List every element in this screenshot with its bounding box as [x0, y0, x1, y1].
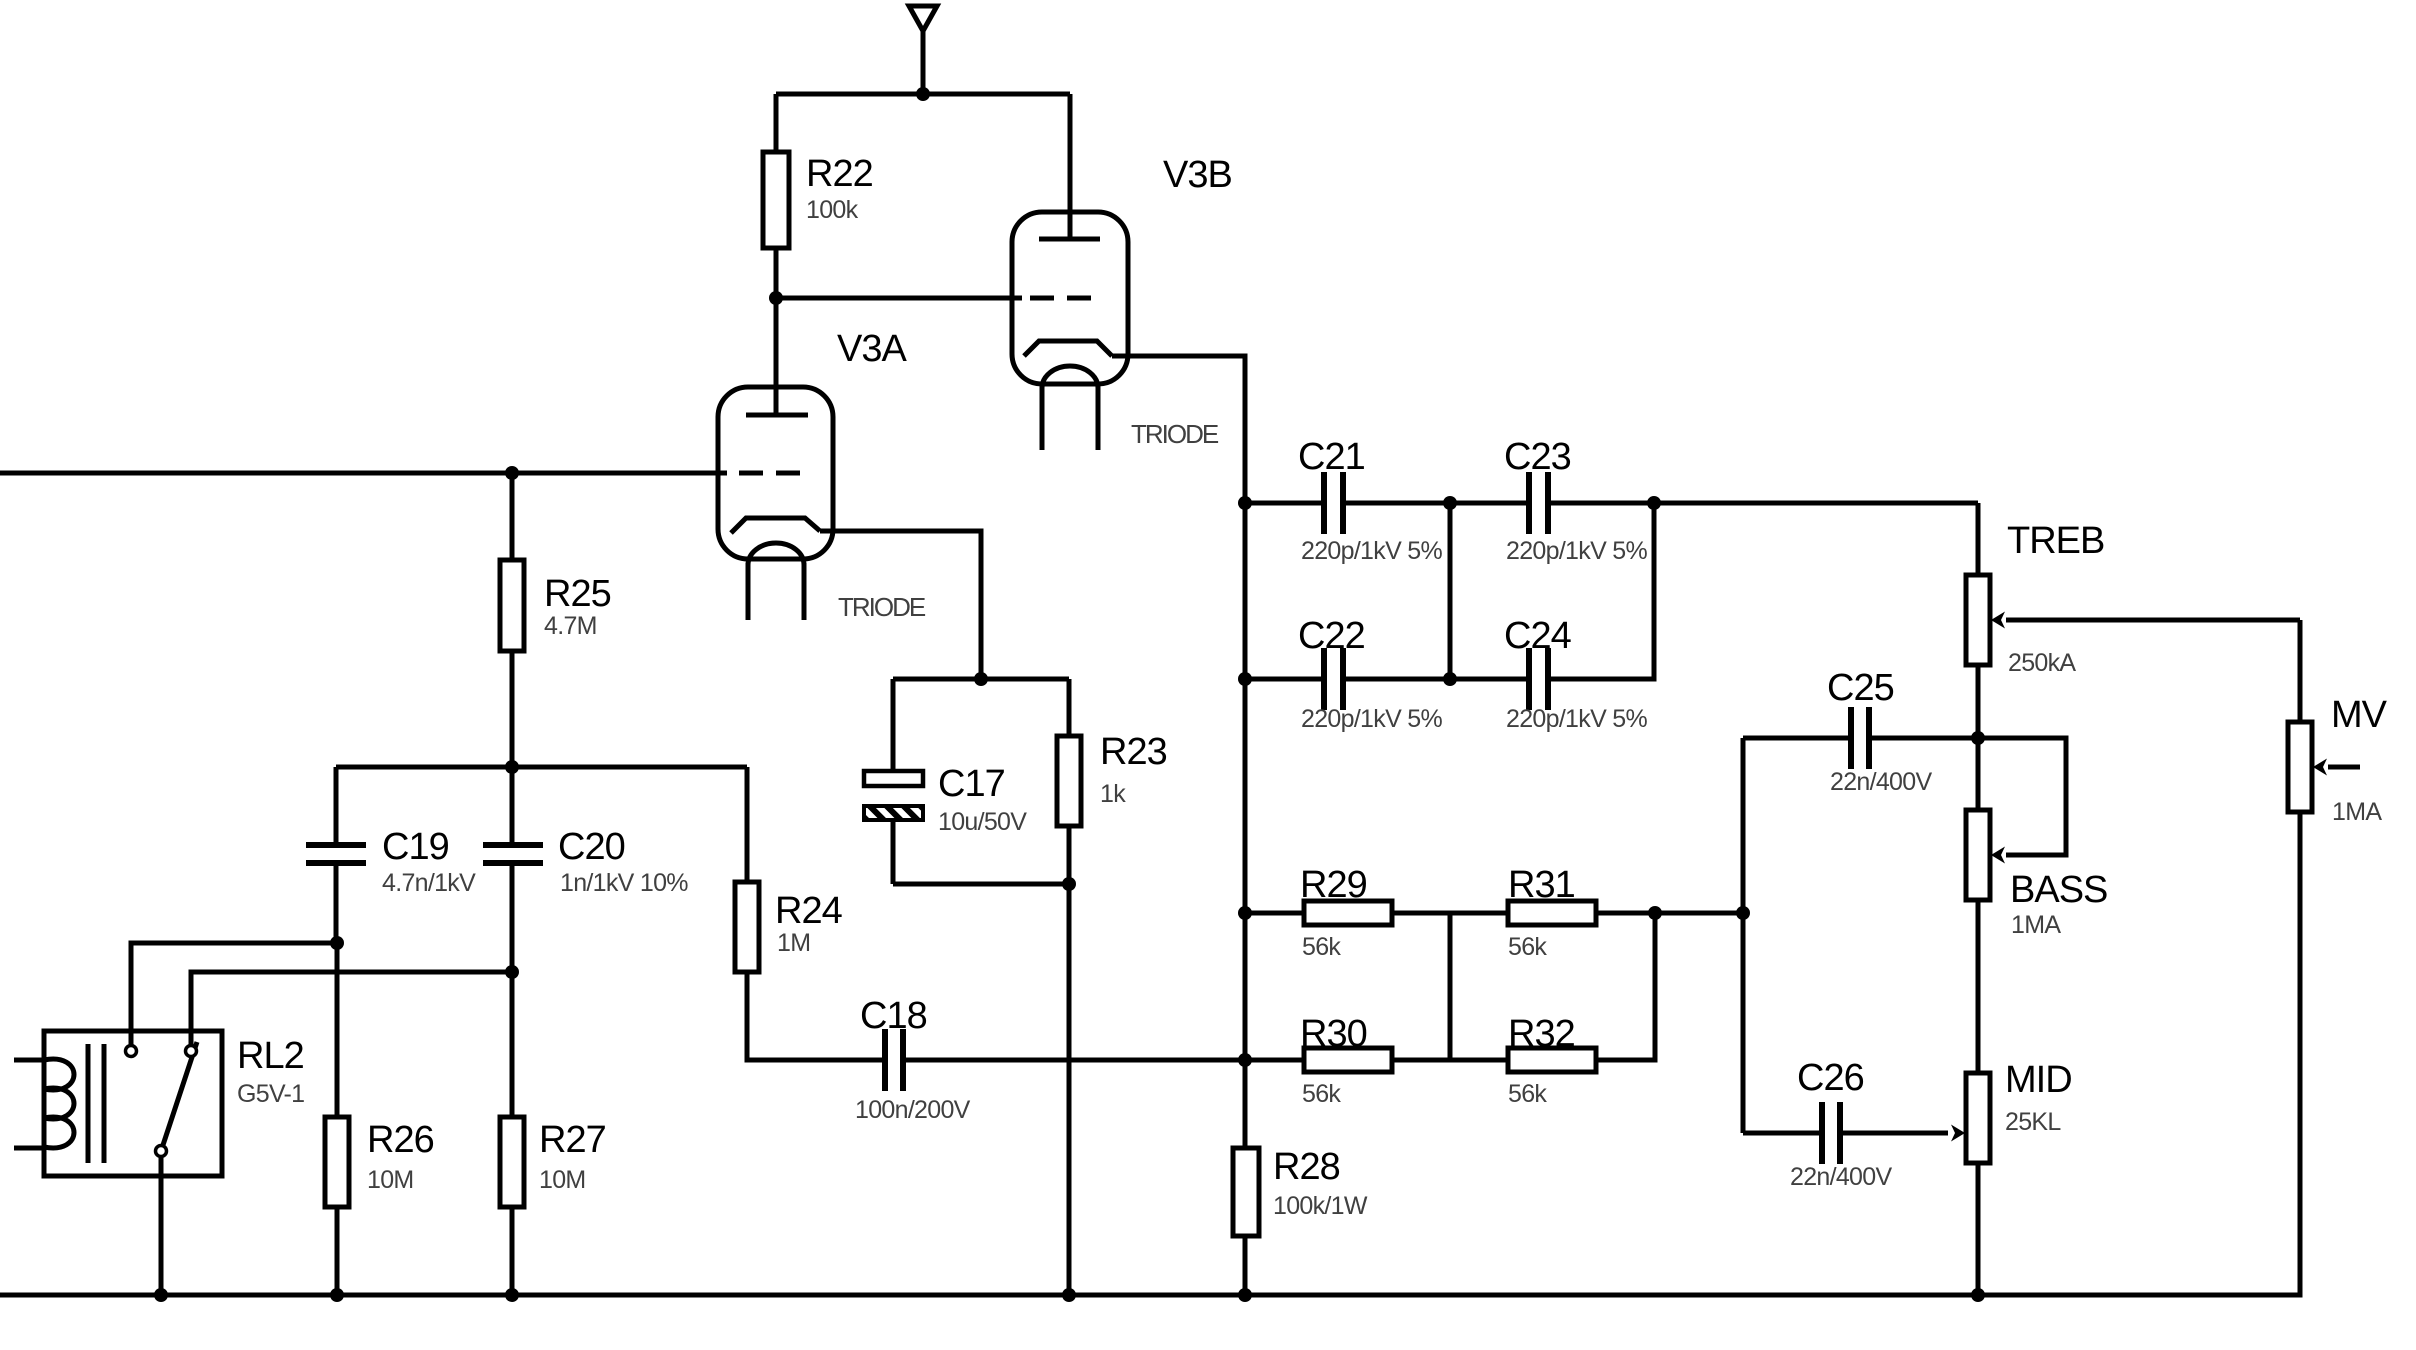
junction bus R30 — [1238, 1053, 1252, 1067]
svg-text:R28: R28 — [1273, 1146, 1340, 1188]
svg-text:1MA: 1MA — [2332, 798, 2382, 826]
svg-text:10M: 10M — [367, 1166, 414, 1194]
svg-text:C20: C20 — [558, 826, 625, 868]
svg-text:220p/1kV 5%: 220p/1kV 5% — [1506, 537, 1647, 565]
svg-text:1n/1kV 10%: 1n/1kV 10% — [560, 869, 688, 897]
wire main bus — [1243, 503, 1248, 1148]
capacitor C24 — [1450, 503, 1654, 733]
junction R25 bottom — [505, 760, 519, 774]
resistor R24 — [735, 767, 883, 1060]
resistor R30 — [1245, 1013, 1508, 1108]
svg-text:10u/50V: 10u/50V — [938, 808, 1027, 836]
capacitor C17 — [864, 679, 1069, 884]
svg-text:100k/1W: 100k/1W — [1273, 1192, 1368, 1220]
svg-text:10M: 10M — [539, 1166, 586, 1194]
junction rail MID — [1971, 1288, 1985, 1302]
wire relay pin2 to C20 branch — [191, 972, 512, 1045]
svg-text:TRIODE: TRIODE — [1131, 419, 1219, 449]
svg-text:R31: R31 — [1508, 864, 1575, 906]
wire R ladder middle — [1448, 913, 1453, 1060]
svg-text:100n/200V: 100n/200V — [855, 1096, 971, 1124]
junction bus R29 — [1238, 906, 1252, 920]
svg-text:C24: C24 — [1504, 615, 1572, 657]
junction C20 bottom — [505, 965, 519, 979]
svg-text:100k: 100k — [806, 196, 859, 224]
svg-text:C18: C18 — [860, 995, 927, 1037]
svg-text:R29: R29 — [1300, 864, 1367, 906]
svg-text:C23: C23 — [1504, 436, 1571, 478]
svg-text:R30: R30 — [1300, 1013, 1367, 1055]
svg-text:R23: R23 — [1100, 731, 1167, 773]
svg-text:25KL: 25KL — [2005, 1108, 2061, 1136]
svg-text:1M: 1M — [777, 929, 810, 957]
resistor R25 — [500, 473, 611, 767]
junction bus C22 — [1238, 672, 1252, 686]
junction supply node — [916, 87, 930, 101]
svg-text:56k: 56k — [1302, 933, 1341, 961]
svg-text:R25: R25 — [544, 573, 611, 615]
svg-text:56k: 56k — [1302, 1080, 1341, 1108]
wire relay pin1 to C19 branch — [131, 943, 337, 1045]
svg-text:220p/1kV 5%: 220p/1kV 5% — [1301, 537, 1442, 565]
svg-text:4.7M: 4.7M — [544, 612, 597, 640]
potentiometer BASS — [1966, 738, 2107, 1073]
junction C17 bottom — [1062, 877, 1076, 891]
resistor R23 — [1057, 679, 1167, 1295]
junction TREB bottom — [1971, 731, 1985, 745]
svg-text:MID: MID — [2005, 1059, 2072, 1101]
junction rail R28 — [1238, 1288, 1252, 1302]
junction rail R27 — [505, 1288, 519, 1302]
svg-text:C19: C19 — [382, 826, 449, 868]
svg-text:22n/400V: 22n/400V — [1830, 768, 1932, 796]
junction C23 right — [1647, 496, 1661, 510]
svg-text:250kA: 250kA — [2008, 649, 2076, 677]
svg-text:C26: C26 — [1797, 1057, 1864, 1099]
svg-text:56k: 56k — [1508, 933, 1547, 961]
junction rail R26 — [330, 1288, 344, 1302]
power supply arrow — [909, 6, 937, 94]
svg-text:R27: R27 — [539, 1119, 606, 1161]
svg-text:R32: R32 — [1508, 1013, 1575, 1055]
capacitor C26 — [1743, 1057, 1948, 1191]
svg-text:RL2: RL2 — [237, 1035, 304, 1077]
junction tone column — [1736, 906, 1750, 920]
wire V3B cathode to bus — [1112, 356, 1245, 503]
wire cap ladder middle — [1448, 503, 1453, 679]
svg-text:R22: R22 — [806, 153, 873, 195]
tube V3B — [1012, 94, 1232, 450]
svg-text:1MA: 1MA — [2011, 911, 2061, 939]
svg-text:220p/1kV 5%: 220p/1kV 5% — [1301, 705, 1442, 733]
svg-text:C22: C22 — [1298, 615, 1365, 657]
resistor R32 — [1508, 913, 1655, 1108]
capacitor C23 — [1450, 436, 1978, 565]
capacitor C20 — [483, 767, 688, 972]
resistor R28 — [1233, 1146, 1368, 1295]
capacitor C19 — [306, 767, 476, 943]
svg-text:C21: C21 — [1298, 436, 1365, 478]
relay RL2 — [14, 1031, 304, 1295]
wire R25 bottom node row — [336, 765, 747, 770]
svg-text:220p/1kV 5%: 220p/1kV 5% — [1506, 705, 1647, 733]
svg-text:C17: C17 — [938, 763, 1005, 805]
svg-text:22n/400V: 22n/400V — [1790, 1163, 1892, 1191]
junction mid C22 — [1443, 672, 1457, 686]
junction mid C21 — [1443, 496, 1457, 510]
potentiometer TREB — [1966, 503, 2300, 738]
wire ground rail — [0, 812, 2300, 1295]
svg-text:1k: 1k — [1100, 780, 1126, 808]
wire V3A plate to V3B grid — [776, 296, 1022, 301]
junction rail RL2 — [154, 1288, 168, 1302]
junction input node — [505, 466, 519, 480]
junction C19 bottom — [330, 936, 344, 950]
junction node V3A plate — [769, 291, 783, 305]
resistor R22 — [763, 94, 873, 298]
capacitor C18 — [855, 995, 1245, 1124]
svg-text:TRIODE: TRIODE — [838, 592, 926, 622]
svg-text:4.7n/1kV: 4.7n/1kV — [382, 869, 476, 897]
junction C17 top — [974, 672, 988, 686]
svg-text:TREB: TREB — [2007, 520, 2104, 562]
potentiometer MV — [2288, 620, 2388, 1295]
svg-text:R26: R26 — [367, 1119, 434, 1161]
svg-text:G5V-1: G5V-1 — [237, 1080, 304, 1108]
capacitor C21 — [1245, 436, 1450, 565]
potentiometer MID — [1951, 1059, 2072, 1295]
wire tone node — [1655, 911, 1743, 916]
svg-text:C25: C25 — [1827, 667, 1894, 709]
svg-text:R24: R24 — [775, 890, 843, 932]
capacitor C25 — [1743, 667, 1978, 796]
wire V3A cathode to C17 node — [820, 531, 981, 679]
tube V3A — [718, 298, 926, 622]
svg-text:MV: MV — [2331, 694, 2388, 736]
junction R31 right — [1648, 906, 1662, 920]
svg-text:V3A: V3A — [837, 328, 907, 370]
resistor R31 — [1508, 864, 1655, 961]
resistor R27 — [500, 972, 606, 1295]
svg-text:56k: 56k — [1508, 1080, 1547, 1108]
wire input line — [0, 471, 727, 476]
resistor R29 — [1245, 864, 1508, 961]
wire top supply rail — [776, 92, 1070, 97]
junction rail R23 — [1062, 1288, 1076, 1302]
junction bus C21 — [1238, 496, 1252, 510]
capacitor C22 — [1245, 615, 1450, 733]
resistor R26 — [325, 943, 434, 1295]
wire tone column — [1741, 738, 1746, 1133]
svg-text:V3B: V3B — [1163, 154, 1232, 196]
svg-text:BASS: BASS — [2010, 869, 2107, 911]
